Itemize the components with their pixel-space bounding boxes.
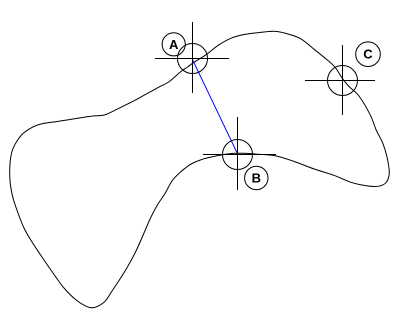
svg-text:B: B xyxy=(252,171,261,186)
svg-text:C: C xyxy=(363,47,373,62)
svg-text:A: A xyxy=(169,37,179,52)
node A label bubble xyxy=(162,33,185,56)
point marker A crosshair xyxy=(155,22,229,93)
node B label bubble xyxy=(245,166,268,189)
line A-B (blue segment from point A to point B) xyxy=(192,59,237,154)
point marker B crosshair xyxy=(203,117,276,190)
node C label bubble xyxy=(356,42,381,67)
freeform closed spline outline xyxy=(10,31,390,308)
point marker C crosshair xyxy=(305,45,375,115)
